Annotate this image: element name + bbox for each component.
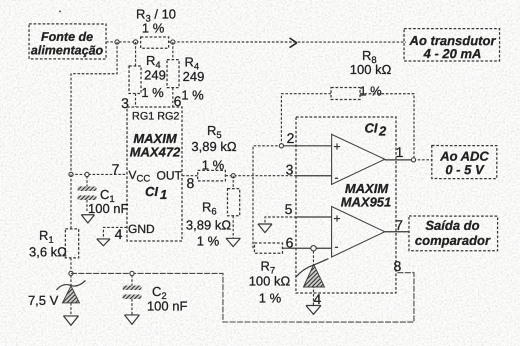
ground at CI1 pin 4 (97, 239, 110, 246)
node: junction low rail / C2 (130, 271, 134, 275)
resistor R1 (65, 229, 78, 258)
wire: R6 top lead (232, 176, 234, 189)
node: junction Vcc rail / C1 (85, 172, 89, 176)
box: Fonte de alimentação (29, 24, 106, 59)
wire: feedback loop right side R8 to output node (360, 94, 414, 160)
wire: pin 2 input wire (253, 146, 282, 248)
wire: stray scan speck (59, 10, 61, 12)
node: junction output / feedback (411, 158, 415, 162)
wire: R1 bottom to low rail (70, 258, 72, 286)
node: junction R1 / zener / low rail (69, 271, 73, 275)
wire: R4-right top lead (172, 42, 174, 60)
node: junction at supply rail x117 (115, 40, 119, 44)
resistor R6 (227, 189, 239, 216)
node: junction R5 / R6 (231, 174, 235, 178)
resistor R5 (198, 170, 226, 181)
wire: junction x117 down then left then down to Vcc rail (71, 42, 117, 175)
op-amp U2: MAX951 (CI2) package (296, 117, 396, 293)
ground below C2 (125, 315, 140, 324)
resistor R4 (left) (129, 66, 141, 94)
node: reference bubble at inverting input (311, 246, 316, 251)
wire: R3 right to transducer box with junction (169, 41, 406, 43)
wire: Vcc rail down to R1 (70, 174, 72, 229)
node: junction at R4-right top (171, 40, 175, 44)
wire: pin 5 wire to ground (265, 217, 297, 224)
wire: R4-right bottom lead to pin 6 (172, 88, 174, 107)
resistor R3 (141, 37, 169, 48)
node: junction at R4-left top (133, 40, 137, 44)
resistor R7 (254, 243, 282, 253)
op-amp A2: lower comparator triangle (332, 207, 385, 258)
ground below zener (63, 316, 78, 325)
wire: R4-left top lead (135, 42, 137, 66)
wire: current-direction arrowhead on output line (290, 38, 297, 48)
node: junction Vcc rail / R1 (69, 172, 73, 176)
wire: R4-left bottom lead to pin 3 (135, 93, 137, 107)
resistor R4 (right) (167, 60, 179, 88)
wire: supply output to R3 left (106, 41, 141, 43)
wire: feedback loop left side R8 to pin 2 node (281, 94, 331, 146)
wire: comparator output pin 7 to box (385, 231, 409, 233)
box: Saída do comparador (409, 216, 498, 251)
ground below C1 (81, 215, 94, 223)
wire: bubble to minus input (316, 247, 331, 249)
wire: low rail from zener node to the right corner (71, 273, 414, 323)
ground below R6 (226, 238, 240, 246)
internal reference symbol of CI2 (295, 251, 328, 305)
box: Ao ADC 0 - 5 V (432, 146, 497, 179)
wire: R5 right to comparator pin 3 (225, 175, 296, 177)
wire: GND pin 4 lead (103, 227, 127, 239)
wire: Vcc rail to pin 7 (71, 173, 127, 175)
node: junction feedback / pin 2 (279, 144, 283, 148)
op-amp A1: upper amplifier triangle (332, 134, 385, 184)
zener diode D1 7,5 V (56, 280, 85, 316)
box: Ao transdutor 4 - 20 mA (404, 29, 500, 61)
capacitor C2 (122, 275, 141, 315)
op-amp U1: MAX472 (CI1) package (127, 107, 183, 241)
wire: R6 bottom lead (232, 216, 234, 238)
wire: output pin 1 to ADC box (385, 159, 414, 161)
ground at pin 5 (258, 224, 272, 233)
ground at CI2 pin 4 (306, 306, 321, 315)
resistor R8 (331, 88, 360, 100)
wire: R7 right to pin 6 / minus input (282, 247, 310, 249)
wire: CI1 OUT pin 8 to R5 (182, 175, 198, 177)
label: CI2 (365, 121, 388, 139)
capacitor C1 (77, 176, 96, 211)
